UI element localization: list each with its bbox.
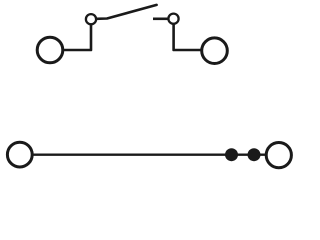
fixed contact circle of knife switch: [168, 14, 178, 24]
wire from fixed contact down to right terminal: [174, 24, 201, 50]
pivot contact circle of knife switch: [86, 14, 96, 24]
terminal 2 (top-right clamp circle): [202, 38, 228, 64]
knife-switch blade: [97, 5, 157, 19]
wire from left terminal to switch pivot (horizontal then up): [62, 24, 91, 50]
junction node dot 2: [248, 148, 261, 161]
fixed contact stub: [153, 17, 168, 20]
terminal 4 (bottom-right clamp circle): [266, 143, 291, 168]
feed-through wire (bottom bus): [32, 153, 266, 155]
terminal 1 (top-left clamp circle): [37, 37, 63, 63]
junction node dot 1: [225, 148, 238, 161]
terminal 3 (bottom-left clamp circle): [7, 142, 32, 167]
